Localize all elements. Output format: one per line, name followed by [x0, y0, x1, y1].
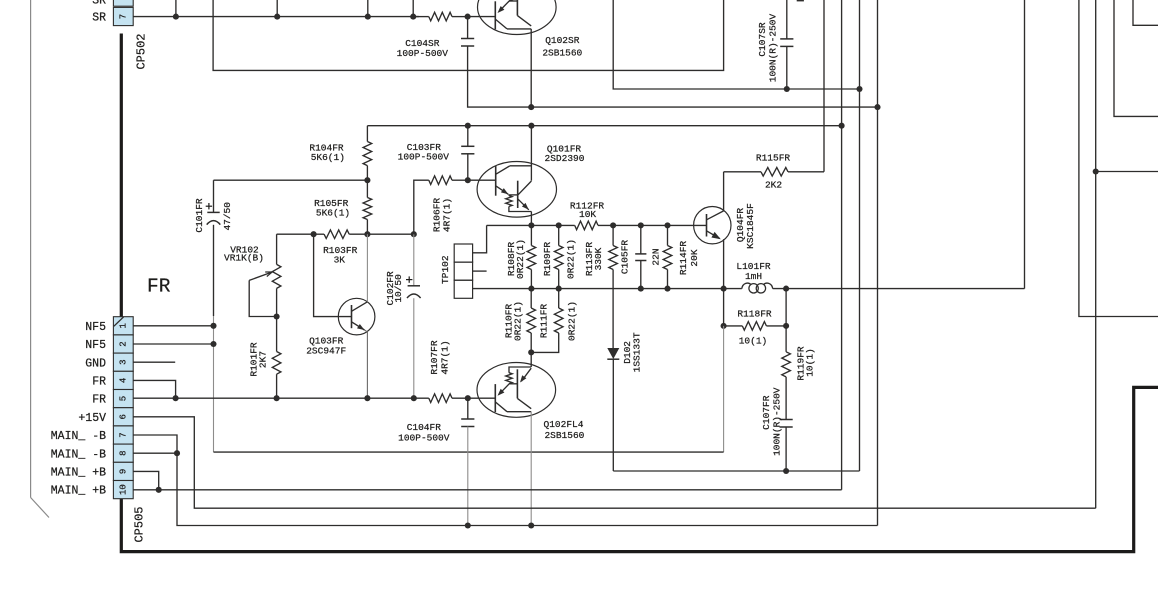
svg-text:R114FR: R114FR — [678, 241, 689, 276]
resistor R101FR — [276, 317, 278, 352]
stub up 3 — [367, 0, 369, 17]
svg-text:10/50: 10/50 — [393, 274, 404, 303]
wire zobel return — [613, 470, 859, 472]
svg-text:VR1K(B): VR1K(B) — [224, 253, 264, 264]
bus -B vertical — [877, 0, 879, 526]
svg-text:9: 9 — [118, 469, 128, 474]
node o4 — [664, 286, 670, 292]
node e1 — [528, 222, 534, 228]
node -B c104 — [465, 522, 471, 528]
variable resistor VR102 — [277, 233, 314, 235]
resistor R112FR — [575, 221, 598, 230]
connector CP505 pin 4 box — [113, 371, 133, 389]
svg-text:330K: 330K — [593, 247, 604, 270]
svg-text:C105FR: C105FR — [619, 240, 630, 275]
resistor R108FR — [530, 225, 532, 245]
wire C101 rail — [214, 179, 368, 181]
node C103 top — [465, 123, 471, 129]
board outline bottom — [121, 387, 1158, 551]
svg-text:47/50: 47/50 — [222, 202, 233, 231]
svg-text:0R22(1): 0R22(1) — [567, 301, 578, 341]
svg-text:1SS133T: 1SS133T — [631, 332, 642, 372]
resistor R115FR — [724, 171, 761, 173]
svg-text:2K7: 2K7 — [257, 351, 268, 368]
svg-text:CP505: CP505 — [133, 506, 147, 542]
node C107FR bottom — [783, 468, 789, 474]
node f5 — [465, 395, 471, 401]
wire Q104 collector — [723, 172, 725, 211]
resistor R110FR — [530, 289, 532, 308]
node e2 — [556, 222, 562, 228]
wire pin10 +B — [133, 489, 841, 491]
wire output rail — [473, 288, 742, 290]
wire +15V tap stub — [1096, 171, 1158, 173]
svg-text:2SB1560: 2SB1560 — [544, 430, 584, 441]
connector CP505 pin 1 box — [113, 317, 133, 335]
svg-text:0R22(1): 0R22(1) — [513, 301, 524, 341]
node e3 — [610, 222, 616, 228]
svg-text:8: 8 — [118, 450, 128, 455]
svg-text:7: 7 — [118, 432, 128, 437]
svg-text:10(1): 10(1) — [804, 348, 815, 377]
svg-text:20K: 20K — [689, 249, 700, 266]
cut label artifact — [797, 0, 804, 1]
node SR base — [465, 14, 471, 20]
transistor Q104FR — [694, 207, 731, 244]
connector CP505 pin 3 box — [113, 353, 133, 371]
wire Q101 collector — [530, 126, 532, 181]
resistor R109FR — [558, 225, 560, 245]
svg-text:MAIN_ -B: MAIN_ -B — [51, 448, 106, 461]
svg-text:R107FR: R107FR — [429, 340, 440, 375]
connector CP505 pin 10 box — [113, 481, 133, 499]
svg-text:3: 3 — [118, 359, 128, 364]
node p2 — [210, 341, 216, 347]
connector CP502 pin 7 box — [113, 7, 133, 25]
svg-text:5: 5 — [118, 396, 128, 401]
bus +B vertical — [841, 0, 843, 490]
wire SR base rail — [133, 16, 419, 18]
svg-text:NF5: NF5 — [85, 321, 106, 334]
svg-text:MAIN_ +B: MAIN_ +B — [51, 485, 106, 498]
test point TP102 — [473, 225, 487, 252]
svg-text:10(1): 10(1) — [739, 335, 768, 346]
board outline CP502 segment — [120, 34, 123, 317]
node o3 — [638, 286, 644, 292]
node f1 — [173, 395, 179, 401]
page edge break mark — [30, 0, 32, 498]
node -B riser top — [874, 104, 880, 110]
node o1 — [528, 286, 534, 292]
node f4 — [411, 395, 417, 401]
bus return vertical — [859, 0, 861, 471]
node R106 right — [465, 177, 471, 183]
resistor R119FR — [785, 326, 787, 352]
wire L101 right down — [785, 289, 787, 326]
wire pin8 -B — [133, 452, 177, 454]
wire L101 left down — [723, 289, 725, 326]
VR102 wiper — [249, 280, 276, 316]
node p1 — [210, 323, 216, 329]
svg-text:4R7(1): 4R7(1) — [440, 340, 451, 374]
node e4 — [638, 222, 644, 228]
connector CP505 pin 5 box — [113, 390, 133, 408]
wire +B rail — [367, 125, 841, 127]
svg-text:6: 6 — [118, 414, 128, 419]
connector CP502 pin 6 box (partial) — [113, 0, 133, 6]
capacitor C107SR — [786, 0, 788, 39]
node o2 — [556, 286, 562, 292]
stub up 4 — [412, 0, 414, 17]
resistor R104FR — [366, 126, 368, 142]
svg-text:2SB1560: 2SB1560 — [542, 48, 582, 59]
svg-text:Q102FL4: Q102FL4 — [544, 419, 584, 430]
svg-text:0R22(1): 0R22(1) — [515, 239, 526, 279]
wire Q102FL4 collector down — [530, 412, 532, 526]
resistor R114FR — [667, 225, 669, 245]
inductor L101FR — [742, 283, 751, 289]
wire pin6 loop — [213, 0, 723, 70]
svg-text:100N(R)-250V: 100N(R)-250V — [767, 14, 778, 83]
wire Q103 base — [314, 234, 352, 316]
svg-text:5K6(1): 5K6(1) — [311, 152, 345, 163]
svg-text:MAIN_ +B: MAIN_ +B — [51, 467, 106, 480]
svg-text:2: 2 — [118, 341, 128, 346]
wire pin6 +15V — [133, 417, 1095, 508]
wire Q102FL4 emitter — [530, 352, 532, 367]
wire SR collector riser — [613, 0, 859, 89]
connector CP505 pin 2 box — [113, 335, 133, 353]
node R110/R111 join — [528, 349, 534, 355]
svg-text:3K: 3K — [334, 254, 346, 265]
svg-text:5K6(1): 5K6(1) — [316, 208, 350, 219]
resistor R106FR — [414, 180, 429, 234]
capacitor C107FR — [780, 419, 793, 421]
node -B q102 — [528, 522, 534, 528]
wire Q101 emitter — [530, 212, 532, 226]
resistor R111FR — [558, 289, 560, 308]
svg-text:C107FR: C107FR — [761, 395, 772, 430]
node p10 — [156, 487, 162, 493]
wire pin3 GND stub — [133, 361, 175, 363]
svg-text:2K2: 2K2 — [765, 180, 782, 191]
svg-text:SR: SR — [92, 0, 106, 8]
svg-text:GND: GND — [85, 357, 106, 370]
transistor Q102FL4 — [477, 363, 556, 418]
svg-text:FR: FR — [147, 276, 171, 298]
capacitor C104SR — [467, 17, 469, 39]
node R104/R105 — [364, 177, 370, 183]
resistor R107SR — [413, 16, 429, 18]
connector CP505 pin 6 box — [113, 408, 133, 426]
svg-text:7: 7 — [118, 14, 128, 19]
node e5 — [664, 222, 670, 228]
capacitor C103FR — [467, 126, 469, 147]
node f2 — [274, 395, 280, 401]
wire pin7 -B — [133, 435, 877, 526]
node o5 — [721, 286, 727, 292]
svg-text:TP102: TP102 — [440, 255, 451, 284]
svg-text:100P-500V: 100P-500V — [398, 432, 450, 443]
wire Q101 base — [468, 179, 496, 181]
wire FR rail — [133, 397, 429, 399]
resistor R118FR — [724, 325, 743, 327]
svg-text:+15V: +15V — [78, 412, 106, 425]
node Q101 collector top — [528, 123, 534, 129]
transistor Q102SR — [478, 0, 557, 35]
node R103 left — [311, 231, 317, 237]
svg-text:4R7(1): 4R7(1) — [441, 198, 452, 232]
svg-text:10K: 10K — [579, 209, 596, 220]
resistor R113FR — [612, 225, 614, 245]
node r118L — [721, 323, 727, 329]
node o6 — [783, 286, 789, 292]
node p8 — [174, 450, 180, 456]
svg-text:1mH: 1mH — [745, 271, 762, 282]
wire output vertical — [1024, 0, 1026, 289]
svg-text:R118FR: R118FR — [737, 308, 772, 319]
capacitor C104FR — [467, 398, 469, 419]
node +B rail end — [839, 123, 845, 129]
svg-text:FR: FR — [92, 394, 106, 407]
svg-text:C101FR: C101FR — [194, 198, 205, 233]
transistor Q101FR — [477, 162, 556, 218]
node Q102SR emitter — [528, 104, 534, 110]
wire pin4 FR — [133, 380, 175, 398]
wire Q104 emitter — [723, 239, 725, 288]
wire pin2 NF5 — [133, 343, 213, 345]
svg-text:NF5: NF5 — [85, 339, 106, 352]
wire Q103 emitter — [365, 330, 368, 398]
svg-text:2SD2390: 2SD2390 — [545, 153, 585, 164]
svg-text:0R22(1): 0R22(1) — [566, 239, 577, 279]
resistor R105FR — [366, 180, 368, 197]
wire NF bottom — [214, 451, 724, 453]
connector CP505 pin 7 box — [113, 426, 133, 444]
node — [410, 14, 416, 20]
svg-text:MAIN_ -B: MAIN_ -B — [51, 430, 106, 443]
svg-text:CP502: CP502 — [135, 33, 149, 69]
node — [173, 14, 179, 20]
capacitor C101FR — [213, 180, 215, 212]
svg-text:100N(R)-250V: 100N(R)-250V — [771, 387, 782, 456]
svg-text:KSC1845F: KSC1845F — [745, 203, 756, 249]
node — [365, 14, 371, 20]
svg-text:100P-500V: 100P-500V — [398, 152, 450, 163]
wire right corner B — [1114, 0, 1158, 116]
wire NF down — [213, 316, 215, 452]
wire right corner C — [1133, 0, 1158, 25]
bus R115 vertical — [823, 0, 825, 172]
svg-text:10: 10 — [118, 484, 128, 495]
svg-text:1: 1 — [118, 323, 128, 328]
svg-text:R109FR: R109FR — [542, 242, 553, 277]
wire Q102SR base — [468, 16, 496, 18]
svg-text:Q102SR: Q102SR — [545, 35, 580, 46]
diode D102 — [607, 348, 619, 359]
capacitor C102FR — [413, 234, 415, 286]
svg-text:FR: FR — [92, 376, 106, 389]
svg-text:SR: SR — [92, 12, 106, 25]
svg-text:4: 4 — [118, 378, 128, 383]
resistor R107FR — [429, 394, 452, 403]
connector CP505 pin 8 box — [113, 444, 133, 462]
connector CP505 pin 9 box — [113, 462, 133, 480]
svg-text:R115FR: R115FR — [756, 153, 791, 164]
transistor Q103FR — [338, 298, 375, 335]
wire R118 down — [723, 326, 725, 452]
plus C102 — [406, 279, 412, 281]
node SR collector end — [856, 86, 862, 92]
wire pin9 +B — [133, 471, 159, 489]
node +15V tap — [1093, 168, 1099, 174]
node C107SR bottom — [784, 86, 790, 92]
stub up 1 — [175, 0, 177, 17]
wire emitter rail — [487, 224, 575, 226]
node f3 — [364, 395, 370, 401]
node r118R — [783, 323, 789, 329]
plus C101 — [206, 205, 212, 207]
wire right corner A — [1079, 0, 1158, 317]
svg-text:22N: 22N — [650, 248, 661, 265]
wire R103 rail — [314, 233, 325, 235]
node C102 top — [411, 231, 417, 237]
stub up 2 — [276, 0, 278, 17]
wire pin1 NF5 — [133, 325, 213, 327]
node VR102 bottom — [274, 313, 280, 319]
svg-text:100P-500V: 100P-500V — [397, 48, 449, 59]
svg-text:R111FR: R111FR — [539, 304, 550, 339]
svg-text:2SC947F: 2SC947F — [306, 345, 346, 356]
node — [274, 14, 280, 20]
bus +15V vertical — [1095, 0, 1097, 508]
capacitor C105FR — [640, 225, 642, 254]
wire Q103 collector — [366, 234, 368, 302]
node R105 bottom — [364, 231, 370, 237]
connector slash — [114, 317, 124, 326]
